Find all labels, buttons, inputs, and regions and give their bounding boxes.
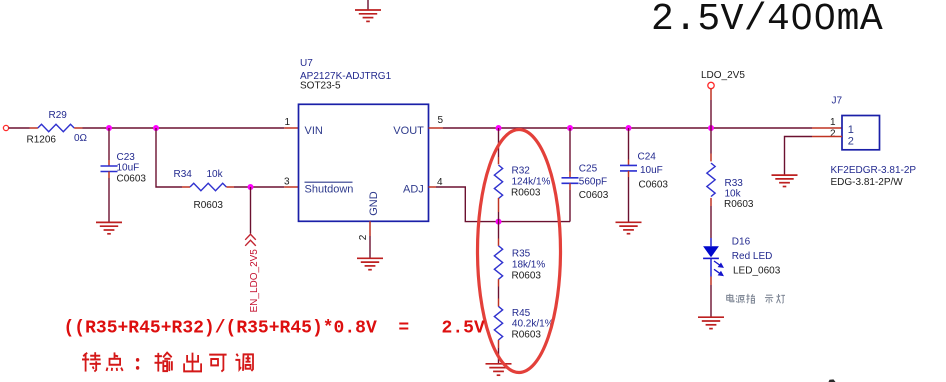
char 示 xyxy=(765,295,773,303)
diode D16 triangle xyxy=(703,246,719,257)
resistor R34 xyxy=(190,183,226,190)
wire R33 to D16 xyxy=(710,206,712,238)
pin R35 top stub xyxy=(498,239,500,246)
pin U7.2 stub xyxy=(369,221,371,236)
node input terminal xyxy=(3,125,8,130)
resistor R29 xyxy=(38,124,74,131)
svg-text:D16: D16 xyxy=(732,237,751,248)
pin R34 left stub xyxy=(182,186,190,188)
svg-text:560pF: 560pF xyxy=(579,176,607,187)
pin LDO_2V5 stub xyxy=(710,89,712,100)
svg-text:R33: R33 xyxy=(725,178,744,189)
char 电 xyxy=(727,294,734,302)
pin C23 top stub xyxy=(108,160,110,166)
wire input to R29 xyxy=(9,127,30,129)
pin U7.5 stub xyxy=(429,127,444,129)
wire C25 top lead xyxy=(569,128,571,172)
svg-text:10k: 10k xyxy=(207,169,224,180)
svg-text:EN_LDO_2V5: EN_LDO_2V5 xyxy=(249,249,260,313)
svg-text:Red LED: Red LED xyxy=(732,251,773,262)
svg-text:R0603: R0603 xyxy=(724,199,754,210)
svg-text:5: 5 xyxy=(438,115,444,126)
note 电源指示灯 (hand drawn) xyxy=(727,294,785,304)
char 指 xyxy=(746,294,755,303)
wire R32 to junction H xyxy=(498,212,500,222)
char 特 xyxy=(82,352,101,371)
ground (C24) xyxy=(616,222,642,233)
op-amp U7 body xyxy=(299,104,429,221)
svg-text:2: 2 xyxy=(830,128,836,139)
ground (top) xyxy=(355,10,381,21)
svg-text:LDO_2V5: LDO_2V5 xyxy=(701,70,745,81)
svg-text:1: 1 xyxy=(848,124,854,136)
svg-text:KF2EDGR-3.81-2P: KF2EDGR-3.81-2P xyxy=(831,165,917,176)
svg-text:2: 2 xyxy=(848,135,854,147)
node junction B (156,128) xyxy=(153,125,159,131)
svg-text:R32: R32 xyxy=(512,165,531,176)
pin R45 top stub xyxy=(498,299,500,307)
wire ADJ net xyxy=(436,187,570,222)
Shutdown overline xyxy=(305,181,353,183)
wire C25 to ADJ net xyxy=(569,190,571,222)
pin U7.4 stub xyxy=(429,186,437,188)
zero dot covers xyxy=(797,11,806,23)
wire VOUT bus xyxy=(443,127,812,129)
node junction F (628.5,128) xyxy=(626,125,632,131)
wire R35 to R45 xyxy=(498,287,500,299)
svg-text:U7: U7 xyxy=(300,58,313,69)
svg-text:LED_0603: LED_0603 xyxy=(733,266,781,277)
svg-text:C25: C25 xyxy=(579,164,598,175)
wire LDO_2V5 to bus xyxy=(710,100,712,128)
svg-text:((R35+R45+R32)/(R35+R45)*0.8V: ((R35+R45+R32)/(R35+R45)*0.8V = 2.5V xyxy=(64,319,485,339)
ground (D16) xyxy=(698,317,724,328)
svg-text:C0603: C0603 xyxy=(639,180,669,191)
svg-text:R0603: R0603 xyxy=(511,188,541,199)
node junction A (109,128) xyxy=(106,125,112,131)
wire R34 to U7 pin3 xyxy=(234,186,284,188)
svg-text:18k/1%: 18k/1% xyxy=(512,260,545,271)
ground (U7) xyxy=(357,258,383,269)
svg-text:C0603: C0603 xyxy=(579,190,609,201)
wire junction C down to EN port xyxy=(250,187,252,234)
highlight ellipse xyxy=(478,130,561,373)
char 点 xyxy=(107,352,123,370)
svg-text:Shutdown: Shutdown xyxy=(305,184,354,196)
ground (R45) xyxy=(486,364,512,375)
wire C23 top lead xyxy=(108,128,110,160)
pin R33 bottom stub xyxy=(710,198,712,206)
char 调 xyxy=(235,354,253,371)
char 可 xyxy=(209,355,226,372)
svg-text:VIN: VIN xyxy=(305,125,323,137)
wire C23 to ground xyxy=(108,178,110,222)
port EN chevron xyxy=(245,234,256,246)
svg-text:10uF: 10uF xyxy=(117,163,140,174)
char 灯 xyxy=(777,294,785,303)
wire junction B down to R34 row xyxy=(156,128,182,187)
svg-text:R0603: R0603 xyxy=(512,330,542,341)
wire U7 GND to ground xyxy=(369,236,371,258)
capacitor C23 xyxy=(101,166,118,172)
pin C25 top stub xyxy=(569,172,571,178)
svg-text:R34: R34 xyxy=(174,169,193,180)
wire C24 to ground xyxy=(628,177,630,222)
svg-text:ADJ: ADJ xyxy=(403,184,424,196)
svg-text:40.2k/1%: 40.2k/1% xyxy=(512,319,554,330)
wire D16 to ground xyxy=(710,285,712,317)
pin J7.2 stub xyxy=(812,136,842,138)
pin J7.1 stub xyxy=(812,127,842,129)
diode D16 cathode pin xyxy=(710,258,712,276)
wire R29 right stub xyxy=(74,127,82,129)
pin R32 top stub xyxy=(498,157,500,164)
resistor R33 xyxy=(707,163,715,196)
svg-text:R45: R45 xyxy=(512,308,531,319)
wire C24 top lead xyxy=(628,128,630,160)
pin D16 bottom stub xyxy=(710,277,712,286)
svg-text:R0603: R0603 xyxy=(512,271,542,282)
char 出 xyxy=(184,353,201,372)
svg-text:R1206: R1206 xyxy=(27,135,57,146)
wire junction H to R35 xyxy=(498,222,500,239)
pin R34 right stub xyxy=(226,186,234,188)
pin R35 bottom stub xyxy=(498,279,500,286)
pin C24 bottom stub xyxy=(628,171,630,177)
resistor R45 xyxy=(494,306,502,339)
node junction E (570,128) xyxy=(567,125,573,131)
svg-text:C24: C24 xyxy=(638,151,657,162)
wire R29 to U7 pin1 xyxy=(83,127,285,129)
node junction D (498.5,128) xyxy=(496,125,502,131)
svg-text:R29: R29 xyxy=(49,110,68,121)
wire R29 left stub xyxy=(30,127,38,129)
wire R33 top lead xyxy=(710,128,712,154)
wire R45 to ground xyxy=(498,348,500,364)
pin U7.3 stub xyxy=(284,186,298,188)
svg-text:2.5V/400mA: 2.5V/400mA xyxy=(651,0,883,41)
svg-text:10k: 10k xyxy=(725,189,742,200)
svg-text:10uF: 10uF xyxy=(640,165,663,176)
power port LDO_2V5 xyxy=(708,82,714,88)
diode D16 cathode bar xyxy=(703,257,719,259)
svg-text:R0603: R0603 xyxy=(194,200,224,211)
pin C24 top stub xyxy=(628,160,630,166)
svg-text:C23: C23 xyxy=(117,152,136,163)
svg-text:1: 1 xyxy=(830,117,836,128)
pin C23 bottom stub xyxy=(108,172,110,179)
capacitor C24 xyxy=(620,165,637,171)
svg-text:1: 1 xyxy=(285,117,291,128)
ground (C23) xyxy=(96,222,122,233)
connector J7 body xyxy=(842,116,880,150)
wire J7.2 to ground xyxy=(785,137,813,176)
pin C25 bottom stub xyxy=(569,183,571,190)
svg-text:C0603: C0603 xyxy=(117,174,147,185)
pin U7.1 stub xyxy=(284,127,298,129)
char 输 xyxy=(155,353,172,372)
svg-text:0Ω: 0Ω xyxy=(74,133,88,144)
ground (J7) xyxy=(772,175,798,186)
svg-text:VOUT: VOUT xyxy=(393,125,424,137)
sheet border mark bottom right xyxy=(829,379,836,382)
resistor R32 xyxy=(494,165,502,198)
svg-text:J7: J7 xyxy=(832,96,843,107)
diode D16 light arrows xyxy=(714,261,723,275)
svg-text:GND: GND xyxy=(368,191,380,216)
svg-text:EDG-3.81-2P/W: EDG-3.81-2P/W xyxy=(831,177,904,188)
svg-text:SOT23-5: SOT23-5 xyxy=(300,80,341,91)
pin R32 bottom stub xyxy=(498,198,500,212)
wire R32 top lead xyxy=(498,128,500,157)
resistor R35 xyxy=(494,246,502,279)
note 特点：输出可调 (hand drawn) xyxy=(82,352,253,371)
svg-text:2: 2 xyxy=(358,234,369,240)
diode D16 anode pin xyxy=(710,238,712,246)
svg-text:R35: R35 xyxy=(512,248,531,259)
pin R33 top stub xyxy=(710,154,712,162)
capacitor C25 xyxy=(562,178,579,184)
pin R45 bottom stub xyxy=(498,340,500,348)
wire top ground stem xyxy=(367,0,369,10)
svg-text:4: 4 xyxy=(437,177,443,188)
node junction G (711,128) xyxy=(708,125,714,131)
char 源 xyxy=(736,295,745,303)
svg-text:3: 3 xyxy=(284,176,290,187)
char fullwidth colon xyxy=(136,358,139,370)
node junction H (498.5,221.6) xyxy=(496,219,502,225)
svg-text:124k/1%: 124k/1% xyxy=(512,176,551,187)
node junction C (250.5,187) xyxy=(248,184,254,190)
